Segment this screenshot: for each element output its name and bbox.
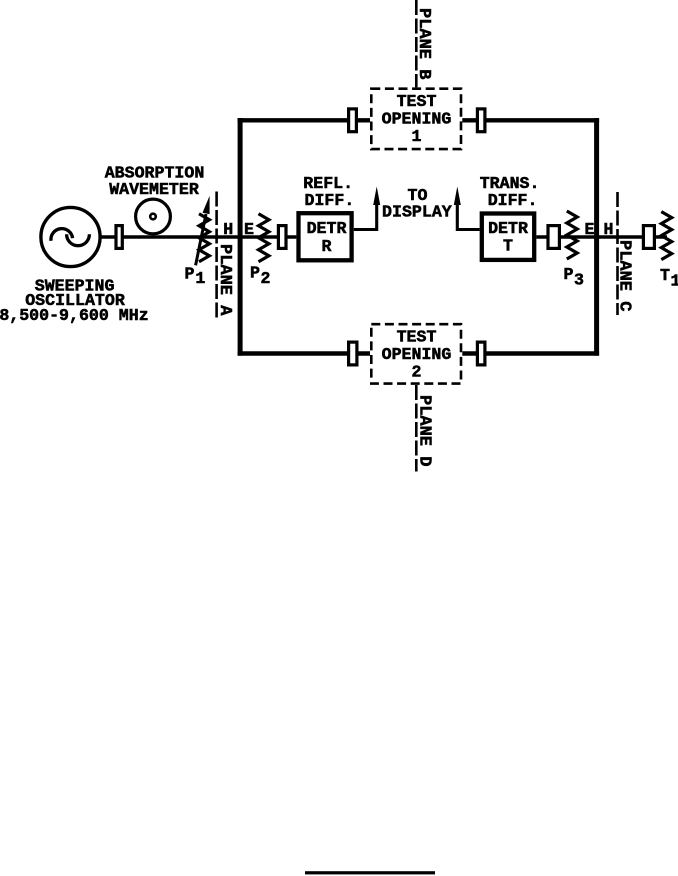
detector DETR T box U2 — [482, 214, 534, 260]
svg-text:E: E — [585, 220, 595, 239]
arrow to display left — [373, 187, 380, 206]
svg-text:2: 2 — [261, 269, 271, 288]
attenuator P3 zigzag — [567, 211, 577, 259]
waveguide ring left vertical wire — [238, 118, 243, 356]
svg-text:1: 1 — [195, 269, 205, 288]
svg-text:1: 1 — [412, 127, 422, 146]
svg-text:DIFF.: DIFF. — [305, 191, 355, 210]
flange FT1 on ring top line — [349, 109, 357, 132]
svg-text:8,500-9,600 MHz: 8,500-9,600 MHz — [0, 306, 149, 325]
flange F4 on main line — [643, 226, 654, 249]
reference plane C dashed line — [616, 192, 619, 315]
svg-text:H: H — [604, 220, 614, 239]
flange F1 on main line — [116, 226, 122, 249]
svg-text:P: P — [250, 264, 260, 283]
svg-text:T: T — [660, 266, 670, 285]
label DETR T — [488, 219, 528, 256]
svg-text:PLANE B: PLANE B — [414, 8, 433, 79]
variable attenuator P1 zigzag — [199, 214, 209, 262]
absorption wavemeter M1 — [136, 199, 171, 234]
wire main transmission line right segment (DETR T to T1) — [536, 235, 667, 238]
attenuator P2 zigzag — [259, 214, 269, 262]
label REFL. DIFF. — [303, 174, 354, 210]
reference plane D dashed line — [415, 385, 418, 472]
label TRANS. DIFF. — [480, 174, 540, 210]
termination T1 zigzag — [661, 212, 671, 260]
variable attenuator P1 arrow — [196, 196, 210, 265]
flange F3 on main line — [548, 226, 559, 249]
label TEST OPENING 2 — [382, 327, 452, 381]
wire DETR R output to display arrow — [354, 200, 377, 230]
svg-text:PLANE A: PLANE A — [215, 244, 234, 316]
flange F2 on main line — [278, 226, 286, 249]
flange FB2 on ring bottom line — [477, 342, 485, 365]
arrow to display right — [454, 187, 461, 206]
svg-text:T: T — [503, 237, 513, 256]
label T1 — [660, 266, 678, 291]
svg-text:1: 1 — [671, 272, 678, 291]
detector DETR R box U1 — [299, 213, 352, 260]
svg-text:WAVEMETER: WAVEMETER — [109, 180, 199, 199]
label SWEEPING OSCILLATOR 8,500-9,600 MHz — [0, 276, 149, 325]
label TEST OPENING 1 — [382, 92, 452, 146]
footer rule — [305, 871, 435, 874]
waveguide ring top-right wire — [462, 118, 599, 122]
svg-text:OPENING: OPENING — [382, 110, 452, 129]
svg-text:DISPLAY: DISPLAY — [382, 203, 452, 222]
svg-text:R: R — [322, 237, 332, 256]
svg-text:E: E — [244, 220, 254, 239]
test opening 2 dashed box — [371, 324, 461, 383]
label ABSORPTION WAVEMETER — [105, 164, 205, 200]
svg-text:2: 2 — [412, 363, 422, 382]
svg-text:H: H — [223, 220, 233, 239]
wire DETR T output to display arrow — [457, 200, 479, 230]
waveguide ring bottom-right wire — [462, 351, 599, 355]
svg-text:PLANE C: PLANE C — [615, 240, 634, 311]
svg-text:DETR: DETR — [488, 219, 528, 238]
svg-text:DIFF.: DIFF. — [488, 191, 538, 210]
svg-text:PLANE D: PLANE D — [415, 395, 434, 466]
sweeping oscillator source G1 — [41, 207, 100, 266]
label P3 — [564, 265, 585, 290]
svg-text:TEST: TEST — [397, 327, 437, 346]
wire main transmission line left segment (oscillator to DETR R) — [100, 235, 296, 238]
svg-text:3: 3 — [574, 271, 584, 290]
label P1 — [185, 265, 206, 289]
flange FT2 on ring top line — [477, 109, 485, 132]
test opening 1 dashed box — [371, 89, 461, 149]
svg-text:TEST: TEST — [397, 92, 437, 111]
reference plane B dashed line — [415, 0, 418, 87]
label TO DISPLAY — [382, 186, 452, 222]
svg-text:DETR: DETR — [307, 219, 347, 238]
svg-text:P: P — [185, 265, 195, 284]
flange FB1 on ring bottom line — [349, 342, 357, 365]
label P2 — [250, 264, 270, 289]
svg-text:OPENING: OPENING — [382, 345, 452, 364]
label DETR R — [307, 219, 347, 256]
svg-text:P: P — [564, 265, 574, 284]
reference plane A dashed line — [215, 192, 218, 321]
waveguide ring top-left wire — [238, 118, 370, 122]
waveguide ring bottom-left wire — [238, 351, 370, 355]
waveguide ring right vertical wire — [594, 118, 599, 356]
